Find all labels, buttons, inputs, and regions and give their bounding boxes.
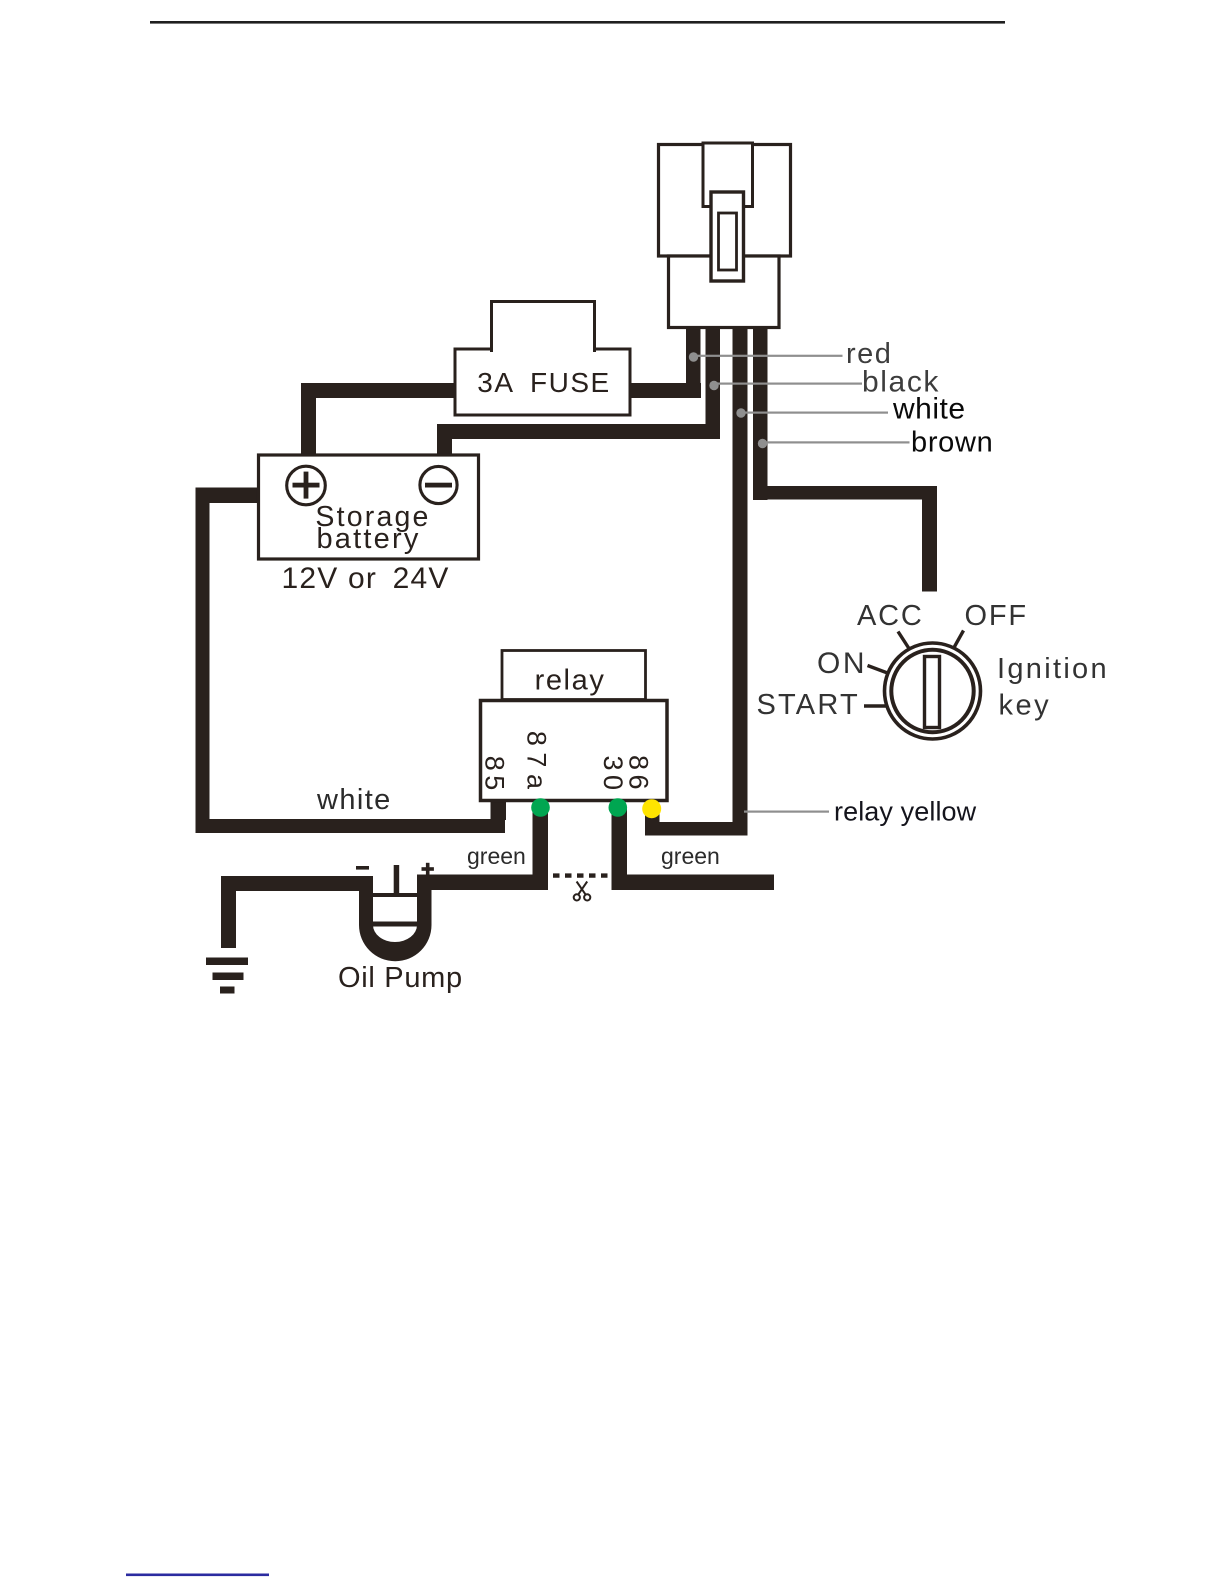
svg-text:battery: battery — [316, 523, 420, 555]
svg-text:Oil Pump: Oil Pump — [338, 962, 463, 994]
svg-text:87a: 87a — [522, 731, 552, 796]
wire: battery left side down to relay 85 (white wire) — [196, 488, 507, 834]
oil pump M1 — [338, 863, 463, 994]
svg-text:relay yellow: relay yellow — [834, 797, 977, 827]
node: relay pin 30 (green) — [609, 798, 628, 817]
svg-text:ACC: ACC — [857, 600, 924, 632]
svg-text:brown: brown — [911, 427, 994, 459]
wire: relay 30 down and right (green) — [612, 807, 775, 890]
wire: connector pin3 down to relay pin 86 (white / relay yellow) — [645, 325, 748, 836]
tick: ON — [868, 666, 888, 674]
node: relay pin 87a (green) — [531, 798, 550, 817]
svg-text:white: white — [316, 784, 392, 816]
svg-text:OFF: OFF — [965, 600, 1028, 632]
fuse F1 3A — [455, 302, 630, 416]
svg-text:green: green — [661, 843, 720, 869]
svg-text:85: 85 — [480, 756, 510, 795]
relay K1 — [480, 651, 668, 801]
label: brown wire leader — [758, 427, 994, 459]
wire: connector pin4 to ignition key (brown) — [753, 325, 937, 592]
wire: relay 87a down to oil pump + (green) — [417, 807, 548, 890]
tick: ACC — [898, 632, 909, 649]
label: relay yellow leader — [744, 797, 977, 827]
svg-text:12V or 24V: 12V or 24V — [281, 562, 449, 595]
svg-text:Ignition: Ignition — [997, 653, 1109, 685]
label: red wire leader — [689, 338, 893, 370]
ground — [206, 958, 248, 994]
connector J1 — [659, 143, 791, 328]
tick: OFF — [954, 631, 964, 648]
svg-text:ON: ON — [817, 647, 867, 680]
cut mark: scissors — [574, 882, 591, 901]
tick: START — [864, 704, 886, 707]
oil pump + sign — [422, 867, 434, 871]
ignition key SW1 — [757, 600, 1109, 739]
wire: battery + to fuse left — [301, 383, 455, 457]
svg-text:green: green — [467, 843, 526, 869]
svg-text:START: START — [757, 689, 860, 721]
cut mark: dashed wire — [553, 873, 610, 877]
wire: connector pin2 to battery minus (black) — [437, 325, 720, 457]
svg-text:key: key — [999, 690, 1052, 722]
battery - terminal — [420, 466, 457, 503]
svg-text:white: white — [892, 393, 966, 426]
svg-text:3A FUSE: 3A FUSE — [477, 367, 610, 398]
label: black wire leader — [709, 366, 940, 399]
wire: fuse right to connector pin1 (red) — [630, 325, 701, 398]
battery + terminal — [287, 466, 326, 505]
battery BT1 storage battery — [259, 455, 479, 595]
svg-text:86: 86 — [623, 755, 653, 794]
label: white wire leader — [736, 393, 965, 426]
wire: oil pump - to ground — [221, 876, 373, 948]
svg-text:relay: relay — [535, 665, 606, 697]
node: relay pin 86 (yellow) — [642, 799, 661, 818]
oil pump - sign — [356, 866, 369, 870]
